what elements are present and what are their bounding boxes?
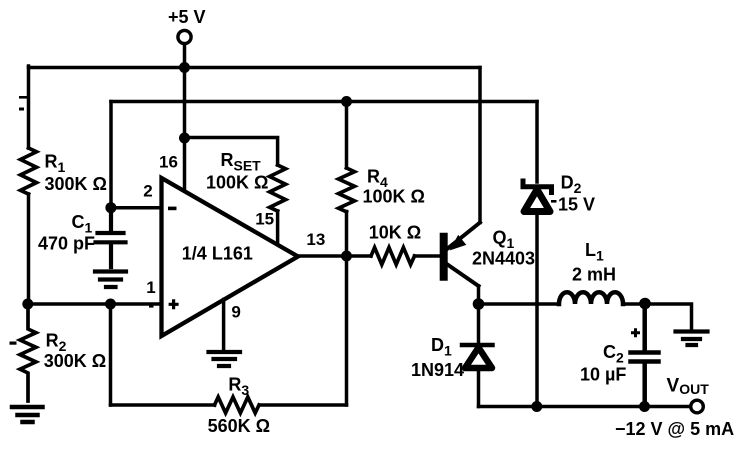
inductor L1 <box>559 292 623 304</box>
svg-text:10K Ω: 10K Ω <box>369 223 421 243</box>
wire R3 right segment <box>260 403 347 407</box>
junction dot rail1 +5V <box>179 62 190 73</box>
wire node A horizontal to op-amp pin1 <box>27 302 162 306</box>
+5V supply terminal <box>178 30 191 43</box>
svg-text:+5 V: +5 V <box>168 7 206 27</box>
resistor 10K <box>371 248 415 265</box>
op-amp U1 triangle <box>162 178 299 336</box>
wire R1 bottom to node A <box>27 194 31 304</box>
ground below R2 <box>12 407 43 422</box>
diode D1 triangle <box>465 348 492 369</box>
svg-text:1/4 L161: 1/4 L161 <box>182 244 253 264</box>
svg-text:10 µF: 10 µF <box>580 365 626 385</box>
zener diode D2 cathode bar <box>523 181 552 193</box>
wire R4 line from rail2 down <box>345 102 349 169</box>
wire D1 from collector node down <box>477 304 481 343</box>
scan artifact dashes left <box>19 96 27 99</box>
svg-text:2 mH: 2 mH <box>572 265 616 285</box>
wire D2 line from rail2 corner down <box>535 102 539 183</box>
svg-text:100K Ω: 100K Ω <box>363 187 425 207</box>
svg-text:560K Ω: 560K Ω <box>208 416 270 436</box>
wire R3 left drop from node A <box>109 304 113 405</box>
svg-text:2: 2 <box>143 182 152 201</box>
junction dot RSET/pin16 <box>179 133 190 144</box>
svg-text:13: 13 <box>306 230 325 249</box>
wire RSET top from +5V node <box>185 138 278 166</box>
wire D1 anode down to output rail <box>477 368 481 407</box>
junction dot D2 output rail <box>531 401 542 412</box>
junction dot rail2 R4 <box>341 96 352 107</box>
junction dot pin2/C1 node <box>105 202 116 213</box>
svg-text:15 V: 15 V <box>558 195 595 215</box>
resistor R2 <box>20 304 36 401</box>
wire Q1 emitter up to rail1 <box>478 68 482 223</box>
svg-text:100K Ω: 100K Ω <box>206 173 268 193</box>
wire rail2 left drop to pin2 node <box>109 102 113 208</box>
svg-text:15: 15 <box>255 210 274 229</box>
capacitor C2 plus sign <box>631 328 640 337</box>
wire pin2 node to op-amp <box>111 206 162 210</box>
junction dot node A mid <box>105 299 116 310</box>
wire L1 right to ground corner <box>623 304 692 329</box>
junction dot pin13 output <box>341 251 352 262</box>
capacitor C2 <box>631 304 659 407</box>
resistor R4 <box>339 168 355 212</box>
op-amp minus sign pin2 <box>168 207 177 211</box>
wire +5V terminal down through rail1 to pin16 <box>183 44 187 190</box>
svg-text:9: 9 <box>231 303 240 322</box>
svg-text:1: 1 <box>146 278 155 297</box>
resistor R3 <box>215 397 259 413</box>
wire +5V rail top (rail1) <box>29 66 481 70</box>
svg-text:−12 V @ 5 mA: −12 V @ 5 mA <box>615 419 734 439</box>
wire rail2 feedback horizontal <box>111 100 537 104</box>
wire 10K to Q1 base <box>415 254 442 258</box>
op-amp plus sign pin1 <box>169 299 179 309</box>
ground right <box>676 332 708 346</box>
junction dot collector node <box>473 298 485 310</box>
wire mid node horizontal to L1 <box>479 302 560 306</box>
transistor Q1 <box>440 237 448 277</box>
svg-text:300K Ω: 300K Ω <box>45 174 107 194</box>
wire R4 bottom through pin13 node down to R3 <box>345 212 349 406</box>
svg-text:300K Ω: 300K Ω <box>44 351 106 371</box>
svg-text:470 pF: 470 pF <box>38 234 95 254</box>
svg-text:1N914: 1N914 <box>411 360 464 380</box>
ground below C1 <box>95 272 126 288</box>
resistor R1 <box>21 148 37 194</box>
VOUT terminal <box>691 400 704 413</box>
capacitor C1 <box>96 208 126 267</box>
junction dot C2 output rail <box>639 401 650 412</box>
junction dot L1 right / C2 top <box>639 298 651 310</box>
wire D2 anode down to output rail <box>535 212 539 407</box>
wire pin15 from RSET to op-amp <box>276 211 280 244</box>
ground pin9 <box>209 352 241 366</box>
transistor Q1 emitter arrow <box>450 235 467 251</box>
wire pin9 to ground <box>222 300 226 351</box>
wire output rail bottom <box>479 405 691 409</box>
diode D1 cathode bar <box>462 343 493 348</box>
svg-text:2N4403: 2N4403 <box>472 249 535 269</box>
svg-text:16: 16 <box>159 153 178 172</box>
wire Q1 collector down to mid node <box>477 286 481 304</box>
zener diode D2 triangle <box>524 190 550 212</box>
resistor RSET <box>270 165 286 211</box>
junction dot node A left <box>22 299 33 310</box>
wire R3 left segment <box>111 403 215 407</box>
wire rail1 left drop to R1 <box>27 66 31 148</box>
wire op-amp output pin13 <box>298 254 371 258</box>
